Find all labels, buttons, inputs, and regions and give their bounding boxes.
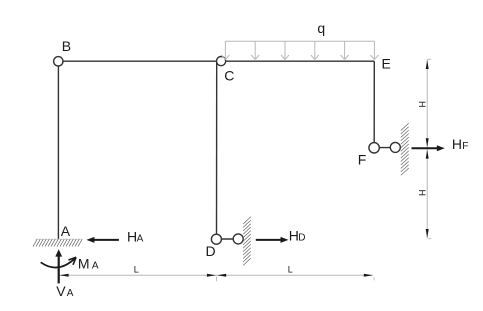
wire link at D	[216, 238, 238, 240]
node D (hinge circle left)	[211, 234, 221, 244]
support F wall hatch	[401, 123, 409, 175]
force arrow VA (pointing up at A)	[55, 249, 62, 283]
svg-text:H: H	[418, 101, 428, 108]
svg-text:C: C	[224, 68, 234, 84]
node F (hinge circle right)	[390, 142, 400, 152]
wire member C-E (top-right beam)	[221, 60, 374, 62]
dimension line H-H (right)	[426, 59, 432, 238]
svg-text:D: D	[206, 243, 216, 259]
svg-text:H: H	[418, 190, 428, 197]
support D wall hatch	[243, 217, 251, 266]
svg-text:D: D	[298, 233, 305, 244]
force arrow HF (pointing right at F)	[412, 145, 445, 151]
svg-text:A: A	[67, 288, 74, 299]
svg-text:A: A	[137, 234, 144, 245]
svg-text:H: H	[127, 229, 137, 245]
svg-text:A: A	[92, 261, 99, 272]
wire link at F	[374, 147, 395, 149]
force arrow HA (pointing left at A)	[86, 237, 119, 243]
svg-text:q: q	[317, 20, 325, 36]
wire member E-F (right column)	[373, 61, 375, 143]
distributed load q (arrows)	[221, 41, 378, 59]
svg-text:F: F	[462, 141, 468, 152]
node F (hinge circle left)	[369, 143, 379, 153]
wire member C-D (middle column)	[216, 61, 218, 234]
svg-text:H: H	[452, 136, 462, 152]
wire member A-B (left column)	[57, 61, 59, 239]
support A ground hatch	[33, 239, 82, 246]
svg-text:M: M	[78, 256, 90, 272]
svg-text:E: E	[382, 55, 391, 71]
force arrow HD (pointing right at D)	[256, 237, 289, 243]
moment arc MA (counter-clockwise)	[41, 257, 76, 267]
svg-text:A: A	[61, 223, 71, 239]
node B (hinge circle)	[54, 57, 63, 66]
svg-text:F: F	[358, 152, 367, 168]
svg-text:L: L	[134, 265, 139, 275]
wire member B-C (top-left beam)	[58, 60, 217, 62]
svg-text:H: H	[289, 228, 299, 244]
svg-text:L: L	[288, 265, 293, 275]
svg-text:V: V	[56, 283, 66, 299]
node D (hinge circle right)	[233, 234, 243, 244]
node C (hinge circle)	[217, 57, 226, 66]
svg-text:B: B	[62, 38, 71, 54]
dimension line L-L (bottom)	[59, 274, 374, 281]
